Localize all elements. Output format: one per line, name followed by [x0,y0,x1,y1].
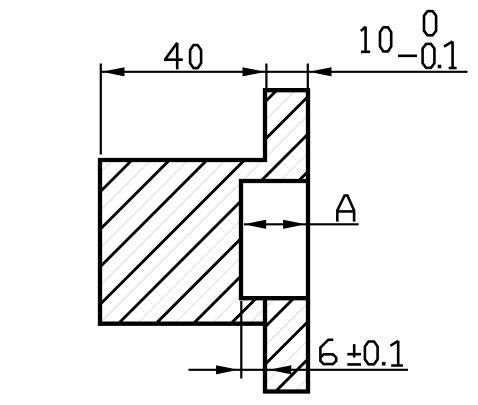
text plus-minus [347,344,361,364]
tolerance dot [438,65,442,69]
arrow 6-right (outside, pointing left) [269,365,292,374]
bore left wall [239,179,243,300]
text 1 (6 dim) [390,341,403,366]
block top edge [98,158,267,162]
ext line 2 (hub right) [307,64,309,89]
text 40 : digit 0 [190,45,201,68]
ext line 1 (hub left) [265,64,267,90]
top dimension line (40 / 10) [101,71,468,73]
bore top edge [239,179,308,183]
arrow 40-right [243,67,266,76]
text 0 (6 dim) [365,342,378,365]
tolerance lower 1 [444,41,457,68]
text 6 [320,340,336,364]
dimension thin lines [101,64,468,379]
part outline: thick object lines [98,88,310,393]
arrow A-left [244,220,267,229]
block left edge [98,158,102,326]
bottom dimension line (6 +-0.1) [189,369,409,371]
bore bottom edge [239,296,308,300]
text 10 : digit 1 [361,27,370,52]
ext line over block left edge [100,64,102,155]
block bottom edge [98,322,267,326]
label A [337,196,354,222]
hub bottom edge [263,389,310,393]
bottom ext line (bore left wall) [240,301,242,379]
A leader line [244,223,359,225]
text 40 : digit 4 [164,43,183,70]
hub left edge lower [263,296,267,393]
text 10 : digit 0 [380,27,391,51]
text: CAD stroke glyphs [164,11,457,365]
tolerance minus [398,54,417,57]
tolerance upper 0 [424,11,436,35]
arrow 10-right (outside) [309,67,332,76]
hub top edge [263,88,310,92]
hub right edge [306,88,310,393]
arrowheads [102,67,332,374]
arrow 40-left [102,67,125,76]
arrow A-right [283,220,306,229]
decimal points [382,65,441,366]
arrow 6-left (outside, pointing right) [216,365,239,374]
hub left edge upper [263,88,267,162]
6-dim dot [382,362,386,366]
tolerance lower 0 [423,44,435,68]
